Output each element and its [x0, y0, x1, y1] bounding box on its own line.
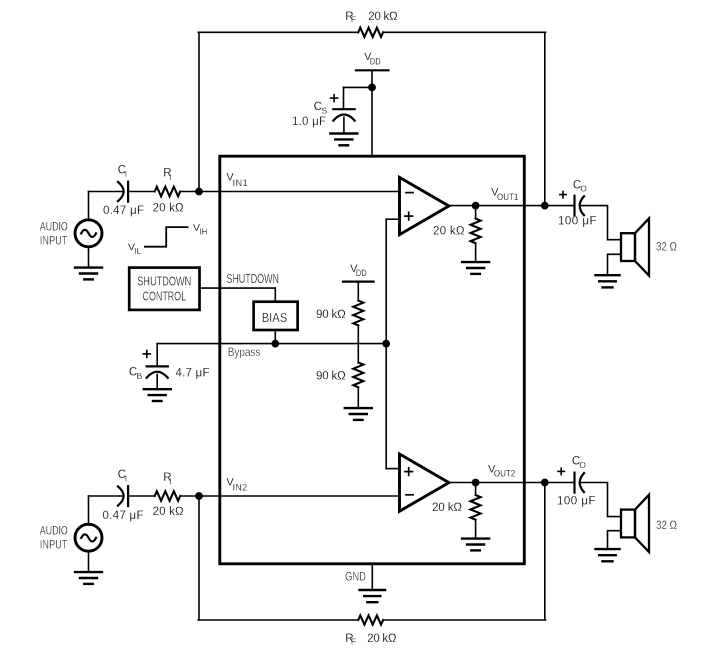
- svg-text:OUT1: OUT1: [497, 192, 518, 202]
- wire: speaker 2 return to ground: [608, 531, 622, 549]
- wire: shutdown control to SHUTDOWN pin: [200, 287, 276, 289]
- wire: CS to ground: [343, 117, 345, 133]
- ground below speaker 2: [596, 549, 620, 561]
- ground below CS: [330, 134, 357, 146]
- wire: CI to RI ch1: [128, 191, 155, 193]
- op-amp A2 plus sign: [405, 468, 413, 476]
- power VDD (top) label: [364, 51, 381, 66]
- wire: common plus-input vertical: [385, 219, 387, 468]
- capacitor CS plus sign: [331, 95, 338, 102]
- resistor 20k load 2: [471, 495, 481, 520]
- value 32 Ohm speaker 1: [656, 240, 677, 254]
- speaker 2 box: [621, 510, 635, 538]
- svg-text:DD: DD: [370, 57, 381, 67]
- capacitor CI (ch1) curved plate: [118, 182, 124, 201]
- ground below 20k load 1: [462, 262, 489, 274]
- wire: VDD bar to upper 90k: [357, 282, 359, 301]
- svg-text:0.47 μF: 0.47 μF: [103, 205, 144, 217]
- svg-text:OUT2: OUT2: [494, 469, 515, 479]
- wire: bottom feedback from VIN2 drop to RF: [198, 619, 358, 621]
- wire: RI to VIN1 pin: [180, 191, 399, 193]
- wire: shutdown down to bias: [274, 288, 276, 302]
- svg-text:IH: IH: [200, 227, 208, 236]
- svg-text:I: I: [125, 473, 127, 483]
- speaker 1 cone: [635, 218, 649, 275]
- svg-text:CONTROL: CONTROL: [143, 288, 187, 303]
- wire: source 1 to ground: [88, 246, 90, 267]
- svg-text:100 μF: 100 μF: [558, 215, 597, 227]
- svg-text:32 Ω: 32 Ω: [656, 240, 677, 254]
- capacitor CO2 straight plate: [573, 473, 575, 493]
- value 90 kOhm lower: [316, 370, 346, 382]
- svg-text:SHUTDOWN: SHUTDOWN: [137, 274, 191, 289]
- value 4.7 uF for CB: [176, 367, 210, 379]
- wire: 20k load 2 to ground: [475, 520, 477, 539]
- wire: source 2 up to input wire: [88, 496, 90, 525]
- svg-text:IL: IL: [135, 247, 142, 256]
- svg-text:20 kΩ: 20 kΩ: [433, 226, 465, 238]
- wire: right feedback vertical VOUT2 to bottom RF: [544, 483, 546, 621]
- resistor RI (ch2) 20 k-ohm: [155, 491, 181, 501]
- capacitor CO1 straight plate: [573, 196, 575, 216]
- resistor RF (top) 20 k-ohm: [358, 28, 383, 37]
- wire: 20k load 1 top: [475, 206, 477, 219]
- wire: VDD down into IC box: [371, 70, 373, 156]
- capacitor CB curved plate: [147, 372, 168, 378]
- value 32 Ohm speaker 2: [656, 518, 677, 532]
- wire: bypass rail: [157, 343, 386, 345]
- label RF (bottom): [345, 633, 356, 647]
- label RI ch1: [163, 168, 171, 182]
- wire: CB to ground: [156, 374, 158, 389]
- svg-text:90 kΩ: 90 kΩ: [316, 309, 346, 321]
- wire: left feedback vertical VIN2 to bottom RF: [198, 496, 200, 620]
- svg-text:100 μF: 100 μF: [557, 495, 596, 507]
- node: VIN2 junction: [195, 492, 203, 500]
- value 20 kOhm for RI ch1: [153, 202, 184, 214]
- wire: lower 90k to ground: [357, 387, 359, 408]
- ground below 20k load 2: [462, 539, 489, 551]
- ground below 90k divider: [345, 408, 372, 420]
- label AUDIO INPUT 1: [40, 221, 68, 247]
- capacitor CI (ch2) straight plate: [127, 486, 129, 506]
- wire: RF bottom to VOUT2 drop: [383, 619, 545, 621]
- resistor 20k load 1: [471, 219, 481, 244]
- svg-text:90 kΩ: 90 kΩ: [316, 370, 346, 382]
- capacitor CO2 plus sign: [558, 468, 564, 474]
- value 20 kOhm load 2: [432, 502, 462, 514]
- svg-text:O: O: [579, 460, 586, 470]
- svg-text:20 kΩ: 20 kΩ: [367, 633, 397, 645]
- node: bypass to plus-input junction: [382, 340, 390, 348]
- ground below source 2: [75, 572, 102, 584]
- pin label VOUT1: [491, 187, 518, 202]
- op-amp A2 triangle: [400, 454, 449, 511]
- wire: upper 90k to lower 90k through bypass rail: [357, 325, 359, 362]
- svg-text:INPUT: INPUT: [40, 539, 68, 551]
- resistor 90k upper: [353, 301, 363, 326]
- svg-text:I: I: [169, 476, 171, 486]
- wire: RF to VOUT1 drop: [383, 31, 545, 33]
- AC source 2 sine: [81, 534, 96, 541]
- svg-text:IN1: IN1: [233, 178, 248, 188]
- svg-text:I: I: [125, 169, 127, 179]
- op-amp A2 minus sign: [406, 494, 413, 496]
- svg-text:20 kΩ: 20 kΩ: [153, 506, 184, 518]
- speaker 1 box: [621, 233, 635, 261]
- svg-text:20 kΩ: 20 kΩ: [432, 502, 462, 514]
- resistor 90k lower: [353, 363, 363, 388]
- pin label VIN2: [226, 476, 247, 492]
- capacitor CO1 plus sign: [560, 191, 566, 197]
- wire: CO2 to speaker 2: [582, 483, 622, 517]
- svg-text:O: O: [580, 184, 587, 194]
- pin label GND: [345, 569, 366, 583]
- value 20 kOhm for RI ch2: [153, 506, 184, 518]
- capacitor CI (ch1) straight plate: [127, 182, 129, 202]
- wire: bias to bypass node: [274, 330, 276, 344]
- capacitor CB top plate: [147, 365, 168, 367]
- capacitor CB plus sign: [143, 350, 150, 357]
- svg-text:IN2: IN2: [233, 483, 248, 493]
- node: VIN1 junction: [195, 188, 203, 196]
- svg-text:Bypass: Bypass: [228, 347, 261, 359]
- wire: VDD junction to CS branch: [344, 86, 373, 88]
- node: A1 output / 20k junction: [472, 202, 480, 210]
- wire: CI to RI ch2: [128, 495, 155, 497]
- wire: A1 output to CO1: [449, 205, 575, 207]
- power VDD (divider) terminal bar: [343, 281, 374, 283]
- label VIL: [128, 241, 142, 256]
- label CB: [129, 366, 143, 380]
- wire: audio input 2 to CI: [89, 495, 123, 497]
- wire: GND pin down: [371, 564, 373, 590]
- svg-text:20 kΩ: 20 kΩ: [368, 11, 398, 23]
- svg-text:20 kΩ: 20 kΩ: [153, 202, 184, 214]
- node: bias/bypass junction: [271, 340, 279, 348]
- ground below speaker 1: [596, 275, 620, 287]
- label CI ch2: [118, 469, 127, 483]
- pin label Bypass: [228, 347, 261, 359]
- label VIH: [193, 222, 208, 237]
- pin label SHUTDOWN: [226, 271, 279, 286]
- node: VDD / CS junction: [368, 84, 376, 92]
- node: VOUT2 / feedback junction: [541, 479, 549, 487]
- svg-text:B: B: [137, 371, 143, 381]
- svg-text:SHUTDOWN: SHUTDOWN: [226, 271, 279, 286]
- wire: plus input A2: [386, 468, 399, 470]
- IC package outline box: [220, 156, 525, 564]
- AC source (audio input 1) circle: [75, 220, 102, 247]
- wire: source 2 to ground: [88, 551, 90, 572]
- label RF (top): [345, 11, 356, 25]
- svg-text:F: F: [351, 637, 356, 647]
- svg-text:32 Ω: 32 Ω: [656, 518, 677, 532]
- SHUTDOWN CONTROL block: [129, 268, 199, 310]
- wire: top feedback from VIN1 node to RF: [198, 31, 358, 33]
- resistor RF (bottom) 20 k-ohm: [358, 615, 383, 624]
- svg-text:DD: DD: [356, 268, 367, 278]
- capacitor CO1 curved plate: [580, 196, 584, 215]
- svg-text:INPUT: INPUT: [40, 235, 68, 247]
- label RI ch2: [163, 472, 171, 486]
- BIAS block: [254, 302, 298, 330]
- svg-text:AUDIO: AUDIO: [40, 221, 68, 233]
- svg-text:GND: GND: [345, 569, 366, 583]
- ground below source 1: [75, 268, 102, 280]
- label AUDIO INPUT 2: [40, 525, 68, 551]
- wire: 20k load 2 top: [475, 483, 477, 496]
- op-amp A1 minus sign: [406, 192, 413, 194]
- wire: RI to VIN2 pin: [180, 495, 399, 497]
- svg-text:F: F: [351, 15, 356, 25]
- wire: left feedback vertical down to VIN1 node: [198, 32, 200, 191]
- value 20 kOhm load 1: [433, 226, 465, 238]
- value 100 uF for CO1: [558, 215, 597, 227]
- wire: plus input A1: [386, 218, 399, 220]
- wire: 20k load 1 to ground: [475, 243, 477, 262]
- value 20 kOhm for RF top: [368, 11, 398, 23]
- value 1.0 uF for CS: [292, 116, 326, 128]
- VIL/VIH step waveform: [145, 227, 188, 247]
- power VDD (divider) label: [350, 263, 367, 278]
- wire: audio input 1 to CI: [89, 191, 123, 193]
- wire: CO1 to speaker 1: [582, 206, 622, 240]
- node: VOUT1 / feedback junction: [541, 202, 549, 210]
- label CS: [314, 101, 328, 116]
- capacitor CS top plate: [333, 108, 354, 110]
- AC source (audio input 2) circle: [75, 524, 102, 551]
- resistor RI (ch1) 20 k-ohm: [155, 187, 181, 197]
- value 90 kOhm upper: [316, 309, 346, 321]
- svg-text:AUDIO: AUDIO: [40, 525, 68, 537]
- value 0.47 uF for CI ch2: [103, 510, 144, 522]
- value 0.47 uF for CI ch1: [103, 205, 144, 217]
- label CI ch1: [118, 165, 127, 179]
- label CO2: [572, 456, 586, 470]
- ground below GND pin: [360, 590, 386, 602]
- wire: source 1 up to input wire: [88, 192, 90, 221]
- wire: speaker 1 return to ground: [608, 254, 622, 275]
- svg-text:BIAS: BIAS: [262, 310, 288, 325]
- svg-text:S: S: [322, 106, 328, 116]
- op-amp A1 plus sign: [405, 212, 413, 220]
- capacitor CI (ch2) curved plate: [118, 486, 124, 505]
- AC source 1 sine: [81, 230, 96, 237]
- pin label VIN1: [226, 172, 247, 188]
- svg-text:I: I: [169, 172, 171, 182]
- wire: right feedback vertical down to VOUT1 node: [544, 32, 546, 205]
- op-amp A1 triangle: [400, 177, 449, 234]
- speaker 2 cone: [635, 495, 649, 552]
- node: A2 output / 20k junction: [472, 479, 480, 487]
- capacitor CO2 curved plate: [580, 473, 584, 492]
- wire: A2 output to CO2: [449, 482, 575, 484]
- svg-text:4.7 μF: 4.7 μF: [176, 367, 210, 379]
- pin label VOUT2: [488, 463, 515, 478]
- svg-text:1.0 μF: 1.0 μF: [292, 116, 326, 128]
- wire: CS branch down to cap: [343, 87, 345, 109]
- capacitor CS curved plate: [333, 115, 354, 121]
- svg-text:0.47 μF: 0.47 μF: [103, 510, 144, 522]
- value 20 kOhm for RF bottom: [367, 633, 397, 645]
- label CO1: [573, 179, 587, 193]
- wire: CB branch down: [156, 344, 158, 367]
- ground below CB: [144, 389, 171, 401]
- power VDD (top) terminal bar: [356, 69, 389, 71]
- value 100 uF for CO2: [557, 495, 596, 507]
